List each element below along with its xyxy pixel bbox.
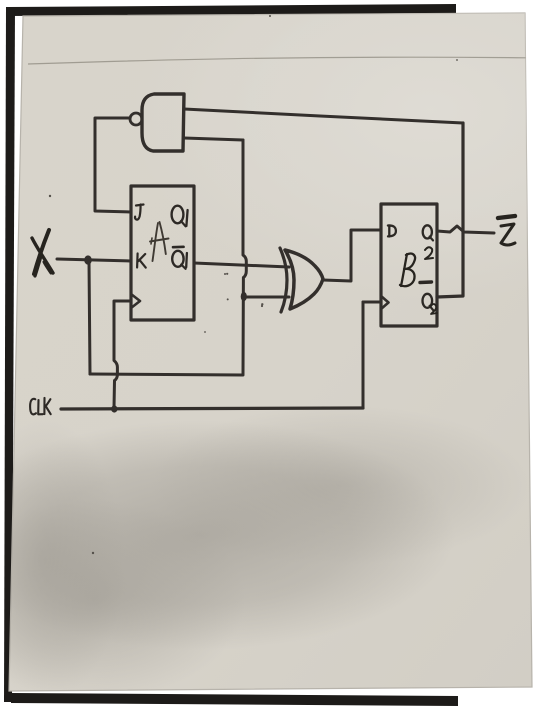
label Q1 [172,206,184,224]
wire right vertical (Qbar2 feedback) [437,123,463,297]
wire vertical x=243 down to junction and bottom line [90,140,246,375]
wire CLK line [61,408,363,409]
handwritten B in flip-flop B [400,254,415,287]
handwritten Z output label with bar [498,216,515,218]
clock triangle B [381,296,389,309]
faint fold line across top [28,57,542,64]
label Q of B [423,225,432,238]
wire xor lower input [243,296,289,299]
printed labels (hand-lettered style) [30,205,433,415]
handwritten 2 subscript of Qbar2 [431,304,437,314]
wire clock B from CLK [363,301,381,304]
dark photo frame slivers (transparent in source, dark at 1:1) [9,4,456,16]
label J [135,205,144,220]
label D [388,225,396,236]
soft hand shadow lower middle [0,420,455,650]
flip-flop B box [381,204,437,326]
xor gate body [285,250,323,309]
handwritten 2 subscript of Q2 [425,247,433,259]
wire nand top input to right vertical [184,109,463,123]
handwritten marks [32,216,515,314]
lighter top-right sheen [130,0,560,300]
label Qbar1 [173,246,184,249]
xor input arc [280,248,287,312]
label Qbar2 of B [423,294,433,308]
label K [137,254,146,268]
handwritten A in flip-flop A [153,223,159,261]
label CLK [30,399,36,415]
handwritten X input symbol [34,230,49,274]
nand gate U1 body [142,94,184,151]
node CLK junction dot [111,405,117,412]
wire Q output of B to Z with hop [437,226,494,233]
wire Qbar1 to xor top input [194,263,289,267]
wire nand output to J [95,118,131,212]
node X junction dot [84,255,92,264]
node junction dot xor lower input [241,292,247,301]
clock triangle A [131,294,140,308]
wire nand bottom input [184,138,243,140]
wire X input [57,259,131,261]
wire left feedback vertical up to X node [89,261,90,374]
flip-flop A box [131,186,194,320]
wire xor output to D [323,230,381,281]
paper specks [49,15,458,554]
nand U1 bubble [130,113,142,125]
wire clock A from CLK [114,301,131,408]
handwritten bar over Q2 [420,280,432,284]
